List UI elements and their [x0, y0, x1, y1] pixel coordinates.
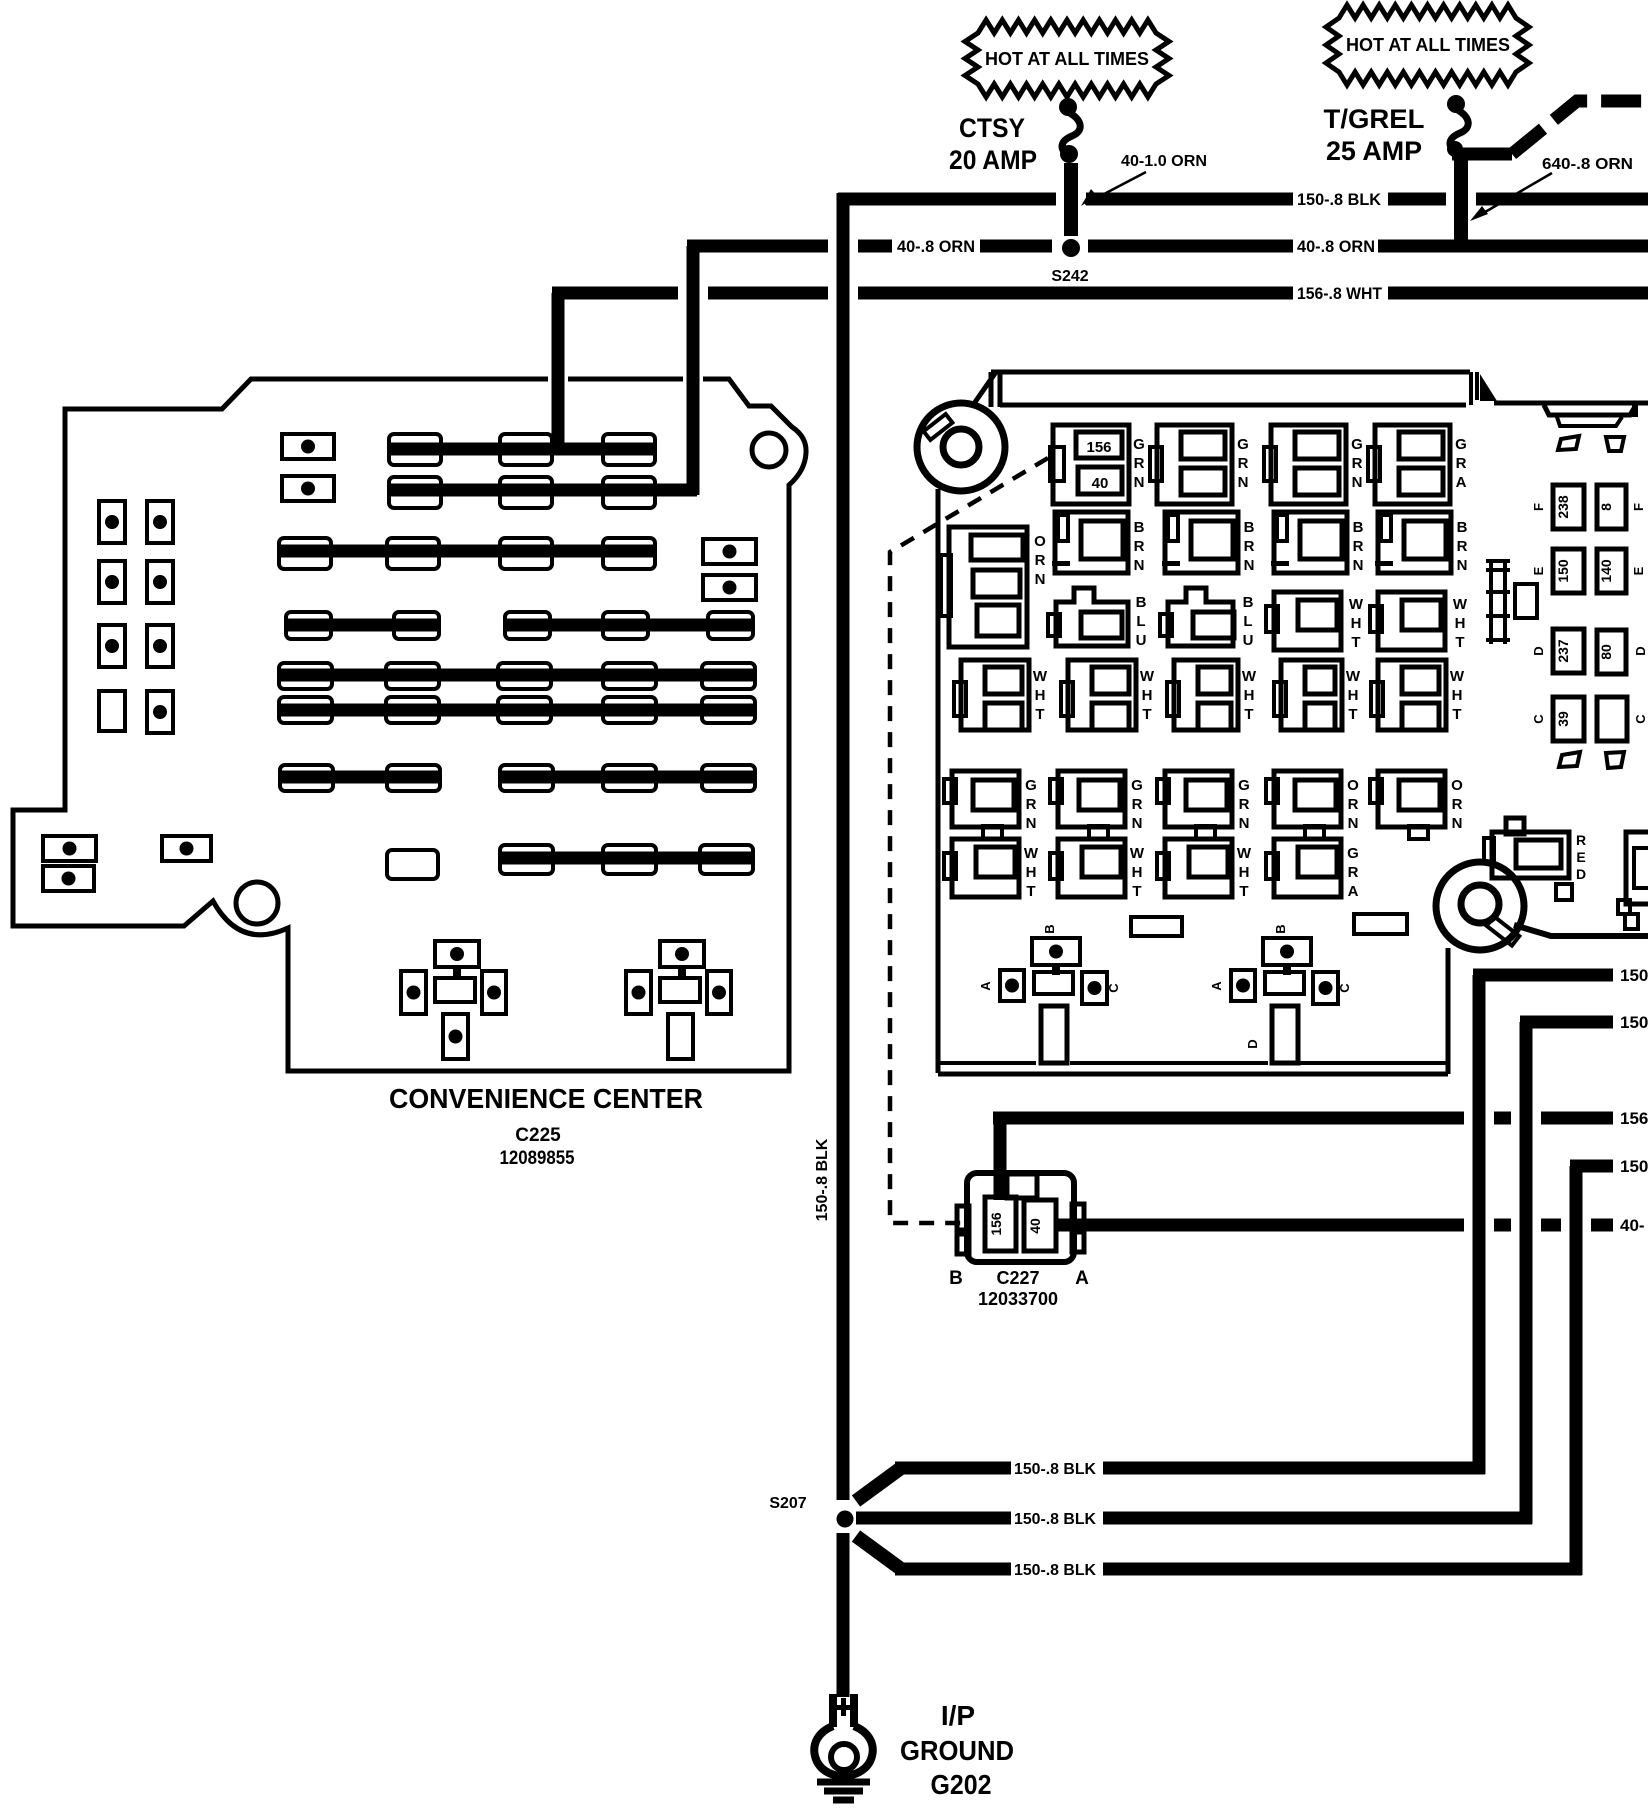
svg-text:T: T [1026, 883, 1035, 900]
svg-text:N: N [1239, 815, 1250, 832]
cavity WHT row6 col2 [1050, 839, 1145, 900]
svg-text:E: E [1576, 849, 1585, 865]
cavity BRN row2 col4 [1271, 512, 1364, 574]
starburst HOT AT ALL TIMES right [1326, 5, 1529, 85]
connector C225 convenience center outline [13, 371, 806, 1071]
svg-text:25 AMP: 25 AMP [1326, 136, 1422, 166]
C225 fuse row 7 left [280, 765, 440, 791]
svg-text:40: 40 [1027, 1218, 1043, 1234]
wire 156 horizontal to C227 [993, 1112, 1613, 1125]
svg-text:N: N [1132, 815, 1143, 832]
C225 terminal column B [147, 501, 173, 733]
svg-text:150-.8 BLK: 150-.8 BLK [814, 1138, 831, 1221]
wire 150-.8 BLK vertical to ground [837, 193, 850, 1697]
cavity GRA row6 col4 [1266, 839, 1359, 900]
svg-text:N: N [1452, 815, 1463, 832]
svg-text:T: T [1239, 883, 1248, 900]
label HOT AT ALL TIMES left [985, 49, 1149, 69]
fuse block mounting boss bottom right [1436, 862, 1648, 950]
svg-text:W: W [1140, 668, 1155, 685]
wire 40-.8 ORN vertical into C225 [687, 246, 700, 495]
C225 fuse row 3 [279, 538, 656, 569]
svg-text:B: B [1244, 519, 1255, 536]
wire 156-.8 WHT vertical into C225 [552, 293, 565, 452]
svg-text:140: 140 [1598, 559, 1614, 583]
svg-text:N: N [1238, 474, 1249, 491]
svg-text:40-1.0 ORN: 40-1.0 ORN [1121, 153, 1207, 170]
svg-text:A: A [978, 981, 993, 991]
small box right of ladder [1515, 584, 1537, 618]
fuse block left edge [936, 489, 941, 1073]
label 40-1.0 ORN with arrow [1081, 153, 1207, 206]
svg-text:N: N [1353, 557, 1364, 574]
cavity WHT row3 col4 [1266, 592, 1364, 651]
svg-text:R: R [1456, 455, 1467, 472]
C225 fuse row 4 left [286, 612, 439, 639]
cavity WHT row4 col4 [1274, 660, 1361, 730]
fuse cavity 80 [1597, 630, 1626, 674]
connector C227 body [957, 1173, 1084, 1262]
svg-text:R: R [1353, 538, 1364, 555]
label 40-.8 ORN inline right [1297, 237, 1375, 256]
label 150-.8 BLK branch 3 [1014, 1562, 1096, 1579]
label CTSY 20 AMP [949, 113, 1037, 175]
svg-text:L: L [1243, 613, 1252, 630]
svg-text:T: T [1035, 706, 1044, 723]
label 150-.8 BLK branch 1 [1014, 1461, 1096, 1478]
C225 terminal column A [99, 501, 125, 731]
svg-text:12089855: 12089855 [500, 1148, 575, 1169]
splice S207 branch 1 wire [856, 1462, 1485, 1502]
svg-text:R: R [1348, 796, 1359, 813]
C225 terminals right pair [703, 539, 756, 600]
svg-text:80: 80 [1598, 644, 1614, 660]
wire 40-.8 ORN horizontal [687, 240, 1648, 253]
svg-text:CONVENIENCE CENTER: CONVENIENCE CENTER [389, 1083, 703, 1114]
label 150 right 3 [1620, 1157, 1648, 1176]
svg-text:R: R [1134, 538, 1145, 555]
svg-text:156: 156 [988, 1212, 1004, 1236]
cavity BLU row3 col2 [1048, 588, 1147, 649]
label 150-.8 BLK inline top [1297, 190, 1382, 209]
C225 terminals top left pair [282, 434, 334, 501]
cavity BLU row3 col3 [1160, 588, 1254, 649]
fuse cavity 238 [1553, 485, 1584, 529]
wire 150-.8 BLK horizontal top [838, 193, 1648, 206]
svg-text:238: 238 [1555, 495, 1571, 519]
label HOT AT ALL TIMES right [1346, 35, 1510, 55]
svg-text:150: 150 [1620, 1013, 1648, 1032]
fuse cavity 237 [1553, 629, 1584, 673]
svg-text:150: 150 [1620, 966, 1648, 985]
C227 terminal 40 [1024, 1200, 1056, 1251]
fuse cavity empty [1597, 697, 1627, 741]
svg-text:R: R [1134, 455, 1145, 472]
cavity GRA row1 col5 [1368, 425, 1467, 504]
C225 fuse row 2 [389, 477, 697, 508]
cavity 156/40 GRN row1 [1050, 425, 1145, 504]
fuse row letters F E D C [1531, 503, 1648, 724]
svg-text:39: 39 [1555, 711, 1571, 727]
svg-text:R: R [1238, 455, 1249, 472]
svg-text:150-.8 BLK: 150-.8 BLK [1014, 1511, 1096, 1528]
wire 156 vertical into C227 [994, 1118, 1007, 1200]
svg-text:N: N [1244, 557, 1255, 574]
svg-text:U: U [1243, 632, 1254, 649]
svg-text:CTSY: CTSY [959, 113, 1025, 143]
ground lug G202 [814, 1694, 873, 1776]
label 640-.8 ORN with arrow [1470, 156, 1633, 221]
svg-text:B: B [1042, 924, 1057, 933]
svg-text:R: R [1035, 552, 1046, 569]
svg-text:T: T [1244, 706, 1253, 723]
cavity GRN row5 col3 [1157, 771, 1250, 839]
svg-text:B: B [1136, 594, 1147, 611]
svg-text:C225: C225 [515, 1125, 561, 1146]
C227 terminal 156 [985, 1197, 1016, 1251]
svg-text:D: D [1531, 646, 1546, 655]
cavity ORN row5 col5 [1370, 771, 1463, 839]
wire dashed battery feed from T/GREL fuse [1512, 101, 1648, 154]
svg-text:B: B [949, 1268, 963, 1289]
cavity ORN tall left [941, 527, 1046, 647]
svg-text:HOT AT ALL TIMES: HOT AT ALL TIMES [1346, 35, 1510, 55]
label 150-.8 BLK vertical wire [814, 1138, 831, 1221]
fuse block bottom edge [938, 948, 1448, 1074]
svg-text:R: R [1026, 796, 1037, 813]
svg-text:R: R [1348, 864, 1359, 881]
cavity BRN row2 col3 [1162, 512, 1255, 574]
svg-text:T: T [1351, 634, 1360, 651]
svg-text:S207: S207 [769, 1495, 806, 1512]
svg-text:F: F [1631, 503, 1646, 511]
svg-text:150: 150 [1555, 559, 1571, 583]
C225 terminals bottom left [43, 836, 211, 891]
fuse block mounting boss top left [917, 403, 1005, 491]
svg-text:R: R [1452, 796, 1463, 813]
C225 fuse row 6 [279, 697, 755, 723]
cavity ORN row5 col4 [1266, 771, 1359, 839]
svg-text:E: E [1631, 566, 1646, 575]
cavity WHT row4 col2 [1061, 660, 1155, 730]
white gaps on wires [678, 188, 1648, 1579]
svg-text:150-.8 BLK: 150-.8 BLK [1014, 1461, 1096, 1478]
svg-text:C: C [1531, 714, 1546, 724]
svg-text:T: T [1348, 706, 1357, 723]
svg-text:W: W [1450, 668, 1465, 685]
cavity WHT row3 col5 [1370, 592, 1468, 651]
svg-text:40-.8 ORN: 40-.8 ORN [897, 237, 975, 256]
svg-text:12033700: 12033700 [978, 1289, 1058, 1309]
wire 150 right elbow A horizontal [1473, 969, 1613, 982]
svg-text:W: W [1237, 845, 1252, 862]
svg-text:40: 40 [1092, 475, 1109, 492]
svg-text:H: H [1035, 687, 1046, 704]
svg-text:W: W [1453, 596, 1468, 613]
svg-text:G: G [1347, 845, 1359, 862]
label 40- right [1620, 1216, 1645, 1235]
wire 150 right vertical A [1473, 975, 1486, 1474]
svg-text:H: H [1452, 687, 1463, 704]
svg-text:156-.8 WHT: 156-.8 WHT [1297, 284, 1383, 303]
fuse CTSY 20 AMP symbol [1059, 98, 1080, 236]
svg-text:W: W [1242, 668, 1257, 685]
svg-text:G: G [1351, 436, 1363, 453]
svg-text:150-.8 BLK: 150-.8 BLK [1014, 1562, 1096, 1579]
label 12089855 [500, 1148, 575, 1169]
fuse cavity 8 [1597, 485, 1626, 529]
svg-text:H: H [1132, 864, 1143, 881]
svg-text:B: B [1134, 519, 1145, 536]
svg-text:N: N [1026, 815, 1037, 832]
svg-text:R: R [1244, 538, 1255, 555]
svg-text:G: G [1133, 436, 1145, 453]
C225 mounting hole bottom left [236, 882, 278, 924]
svg-text:N: N [1457, 557, 1468, 574]
wire 150 right vertical B [1520, 1022, 1533, 1524]
svg-text:D: D [1633, 646, 1648, 655]
svg-text:N: N [1035, 571, 1046, 588]
label CONVENIENCE CENTER [389, 1083, 703, 1114]
svg-text:T: T [1455, 634, 1464, 651]
svg-text:H: H [1142, 687, 1153, 704]
svg-text:40-.8 ORN: 40-.8 ORN [1297, 237, 1375, 256]
svg-text:B: B [1273, 924, 1288, 933]
svg-text:GROUND: GROUND [900, 1735, 1014, 1766]
svg-text:L: L [1136, 613, 1145, 630]
svg-text:E: E [1531, 566, 1546, 575]
svg-text:U: U [1136, 632, 1147, 649]
splice S207 branch 2 wire [856, 1512, 1532, 1525]
wire 150 right elbow D horizontal [1570, 1160, 1613, 1173]
svg-text:C: C [1633, 714, 1648, 724]
label 156-.8 WHT inline [1297, 284, 1383, 303]
fuse cavity 39 [1553, 697, 1584, 741]
svg-text:T: T [1132, 883, 1141, 900]
svg-text:C: C [1106, 983, 1121, 993]
cavity GRN row1 col3 [1150, 425, 1249, 504]
C225 empty cavity row 8 [387, 850, 438, 879]
splice S242 [1051, 239, 1088, 285]
label 150 right 2 [1620, 1013, 1648, 1032]
ladder detail [1486, 559, 1510, 644]
svg-text:T: T [1452, 706, 1461, 723]
svg-text:G: G [1238, 777, 1250, 794]
svg-text:G: G [1455, 436, 1467, 453]
svg-text:B: B [1457, 519, 1468, 536]
cavity GRN row1 col4 [1264, 425, 1363, 504]
cavity GRN row5 col1 [944, 771, 1037, 839]
C225 fuse row 8 right [500, 845, 753, 874]
svg-text:C: C [1337, 983, 1352, 993]
svg-text:B: B [1353, 519, 1364, 536]
C225 fuse row 7 right [500, 765, 755, 791]
label 156 right [1620, 1109, 1648, 1128]
svg-text:F: F [1531, 503, 1546, 511]
C225 terminal cluster left [401, 941, 506, 1059]
svg-text:H: H [1455, 615, 1466, 632]
svg-text:R: R [1239, 796, 1250, 813]
cavity WHT row4 col3 [1167, 660, 1257, 730]
label 150-.8 BLK branch 2 [1014, 1511, 1096, 1528]
svg-text:150-.8 BLK: 150-.8 BLK [1297, 190, 1382, 209]
fuse block terminal cluster 1 [978, 924, 1121, 1063]
fuse block flange cap [1544, 404, 1636, 426]
fuse cavity 150 [1553, 549, 1584, 593]
svg-text:O: O [1347, 777, 1359, 794]
svg-text:R: R [1352, 455, 1363, 472]
svg-text:W: W [1349, 596, 1364, 613]
svg-text:R: R [1132, 796, 1143, 813]
labels C227 [949, 1268, 1089, 1309]
flange trapezoid details [1558, 436, 1624, 768]
fuse block top rail [973, 372, 1648, 407]
svg-text:H: H [1348, 687, 1359, 704]
C225 terminal cluster right [626, 941, 731, 1059]
svg-text:G: G [1131, 777, 1143, 794]
svg-text:G: G [1237, 436, 1249, 453]
label 150 right 1 [1620, 966, 1648, 985]
wire 150 right vertical D [1570, 1166, 1583, 1575]
svg-text:H: H [1244, 687, 1255, 704]
svg-text:40-: 40- [1620, 1216, 1645, 1235]
svg-text:N: N [1348, 815, 1359, 832]
svg-text:8: 8 [1598, 503, 1614, 511]
svg-text:A: A [1456, 474, 1467, 491]
wire 150 right elbow B horizontal [1520, 1016, 1613, 1029]
svg-text:W: W [1024, 845, 1039, 862]
svg-text:H: H [1239, 864, 1250, 881]
cavity GRN row5 col2 [1050, 771, 1143, 839]
svg-text:R: R [1457, 538, 1468, 555]
svg-text:A: A [1075, 1268, 1089, 1289]
svg-text:S242: S242 [1051, 268, 1088, 285]
wire 156-.8 WHT horizontal [552, 287, 1648, 300]
svg-text:G202: G202 [931, 1769, 992, 1800]
starburst HOT AT ALL TIMES left [965, 20, 1169, 97]
C225 fuse row 1 [389, 434, 656, 465]
svg-text:D: D [1245, 1039, 1260, 1048]
svg-text:640-.8 ORN: 640-.8 ORN [1542, 156, 1633, 173]
svg-text:A: A [1348, 883, 1359, 900]
svg-text:B: B [1243, 594, 1254, 611]
fuse block terminal cluster 2 [1209, 924, 1352, 1063]
svg-text:N: N [1134, 557, 1145, 574]
partial cavity right edge [1618, 832, 1648, 929]
svg-text:156: 156 [1620, 1109, 1648, 1128]
svg-text:T: T [1142, 706, 1151, 723]
svg-text:237: 237 [1555, 639, 1571, 663]
fuse block bottom small terminals [1131, 914, 1407, 936]
C225 fuse row 5 [279, 663, 755, 689]
fuse cavity 140 [1597, 549, 1626, 593]
svg-text:20 AMP: 20 AMP [949, 145, 1037, 175]
splice S207 branch 3 wire [856, 1536, 1582, 1576]
cavity WHT row6 col1 [944, 839, 1039, 900]
svg-text:H: H [1026, 864, 1037, 881]
cavity WHT row4 col1 [954, 660, 1048, 730]
svg-text:R: R [1576, 832, 1586, 848]
splice S207 [769, 1495, 853, 1528]
svg-text:150: 150 [1620, 1157, 1648, 1176]
label T/GREL 25 AMP [1324, 104, 1425, 166]
fuse T/GREL 25 AMP symbol [1447, 95, 1512, 246]
svg-text:A: A [1209, 981, 1224, 991]
wire 40 horizontal from C227-A [1057, 1219, 1613, 1232]
svg-text:W: W [1033, 668, 1048, 685]
C225 fuse row 4 right [505, 612, 753, 639]
label I/P GROUND G202 [900, 1700, 1014, 1800]
svg-text:W: W [1346, 668, 1361, 685]
label C225 [515, 1125, 561, 1146]
svg-text:I/P: I/P [941, 1700, 975, 1731]
svg-text:O: O [1034, 533, 1046, 550]
label 40-.8 ORN inline left [897, 237, 975, 256]
svg-text:N: N [1352, 474, 1363, 491]
cavity RED right flange [1484, 818, 1586, 900]
dashed line from 156/40 cavity to C227 [890, 458, 1048, 1223]
svg-text:G: G [1025, 777, 1037, 794]
cavity WHT row4 col5 [1371, 660, 1465, 730]
svg-text:HOT AT ALL TIMES: HOT AT ALL TIMES [985, 49, 1149, 69]
svg-text:C227: C227 [996, 1268, 1039, 1288]
cavity BRN row2 col5 [1375, 512, 1468, 574]
ground symbol [817, 1782, 870, 1800]
svg-text:W: W [1130, 845, 1145, 862]
svg-text:H: H [1351, 615, 1362, 632]
cavity BRN row2 col2 [1052, 512, 1145, 574]
svg-text:T/GREL: T/GREL [1324, 104, 1425, 134]
svg-text:N: N [1134, 474, 1145, 491]
cavity WHT row6 col3 [1157, 839, 1252, 900]
svg-text:D: D [1576, 866, 1586, 882]
svg-text:156: 156 [1086, 439, 1111, 456]
svg-text:O: O [1451, 777, 1463, 794]
C225 mounting hole top right [752, 433, 786, 467]
